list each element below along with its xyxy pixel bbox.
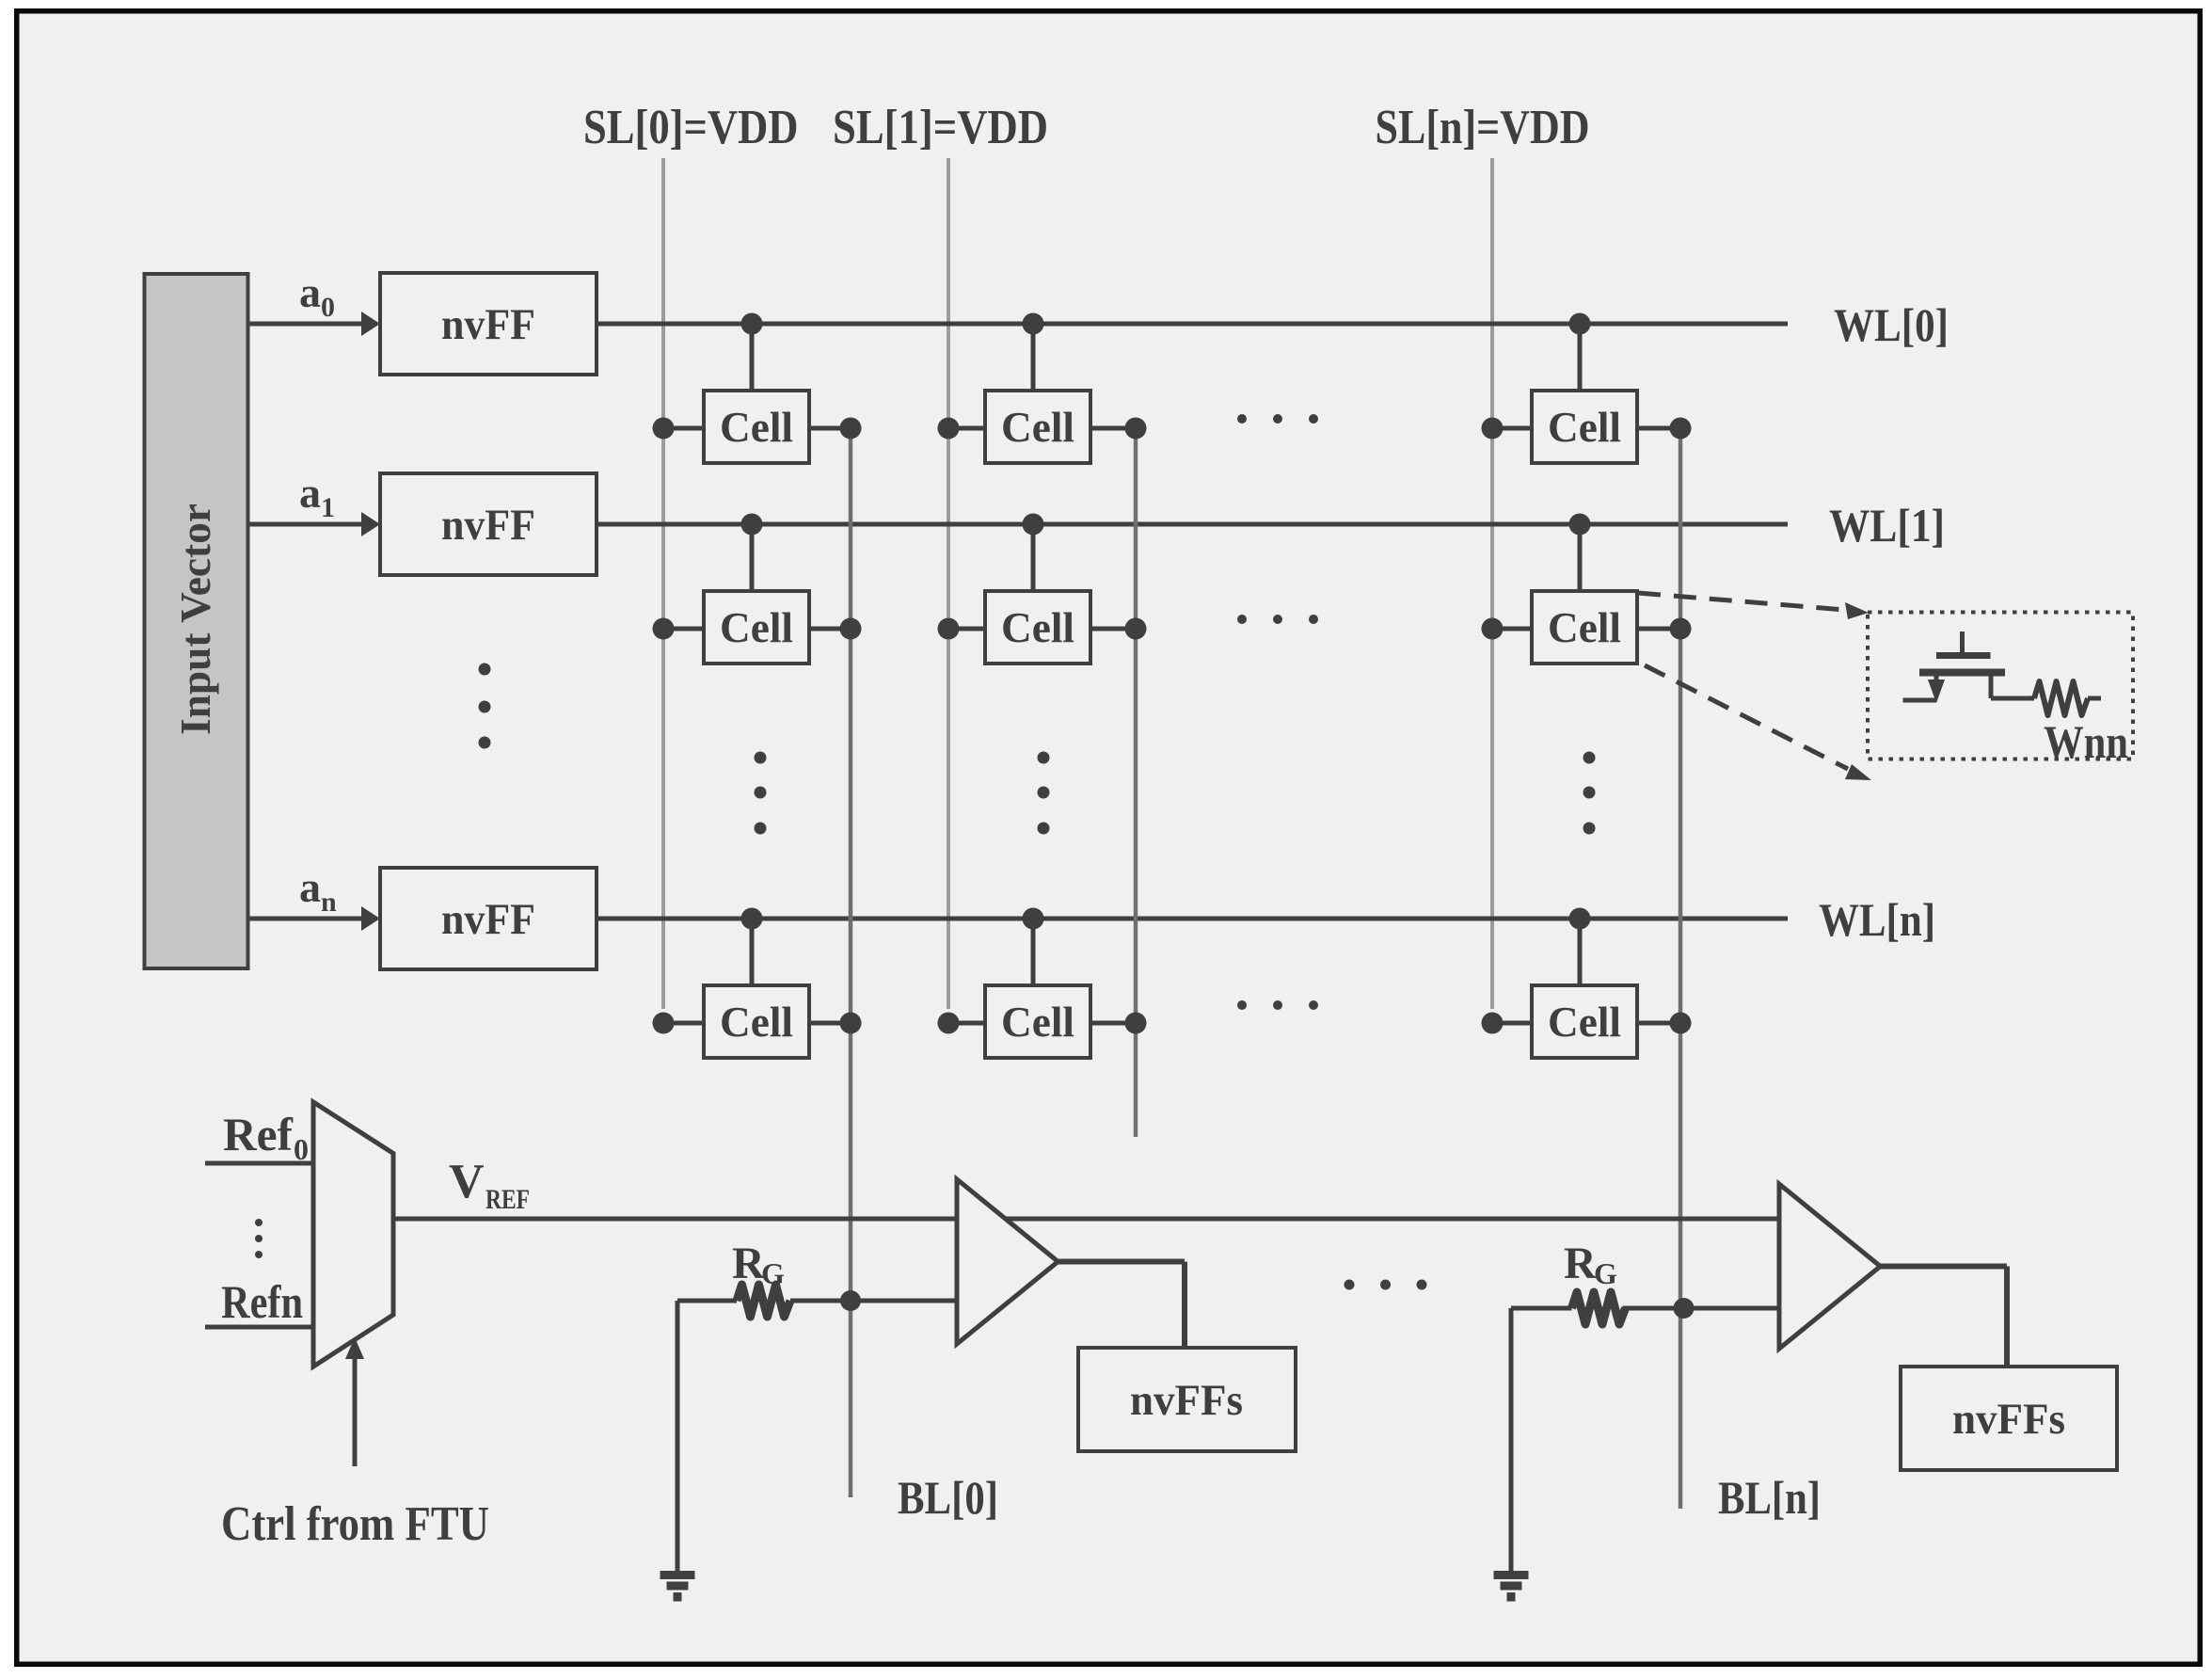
svg-text:Cell: Cell <box>1548 403 1621 451</box>
svg-text:Ctrl from FTU: Ctrl from FTU <box>221 1497 489 1551</box>
svg-text:SL[1]=VDD: SL[1]=VDD <box>833 101 1048 154</box>
svg-text:Cell: Cell <box>1001 603 1074 651</box>
svg-text:SL[0]=VDD: SL[0]=VDD <box>583 101 799 154</box>
svg-text:Cell: Cell <box>1548 998 1621 1046</box>
svg-text:G: G <box>1594 1256 1617 1290</box>
svg-text:BL[0]: BL[0] <box>898 1471 998 1524</box>
svg-text:a: a <box>299 863 321 911</box>
svg-text:0: 0 <box>321 292 335 323</box>
svg-text:nvFF: nvFF <box>441 300 535 349</box>
svg-text:Cell: Cell <box>1001 403 1074 451</box>
svg-text:Cell: Cell <box>1548 603 1621 651</box>
svg-text:nvFFs: nvFFs <box>1952 1395 2065 1444</box>
svg-text:a: a <box>299 268 321 316</box>
svg-text:Cell: Cell <box>720 998 793 1046</box>
svg-text:BL[n]: BL[n] <box>1718 1471 1821 1524</box>
svg-text:WL[n]: WL[n] <box>1819 893 1935 946</box>
svg-text:a: a <box>299 469 321 517</box>
svg-text:Cell: Cell <box>720 603 793 651</box>
svg-text:Ref: Ref <box>223 1108 294 1160</box>
svg-text:nvFF: nvFF <box>441 501 535 550</box>
svg-text:WL[1]: WL[1] <box>1829 499 1945 552</box>
svg-text:1: 1 <box>321 492 335 523</box>
svg-text:SL[n]=VDD: SL[n]=VDD <box>1376 101 1590 154</box>
svg-text:Input Vector: Input Vector <box>171 504 219 735</box>
svg-text:G: G <box>761 1256 785 1290</box>
svg-text:0: 0 <box>294 1132 309 1166</box>
svg-text:nvFFs: nvFFs <box>1130 1376 1243 1425</box>
svg-text:V: V <box>449 1155 485 1208</box>
svg-text:nvFF: nvFF <box>441 895 535 944</box>
svg-text:Cell: Cell <box>720 403 793 451</box>
svg-text:REF: REF <box>485 1184 530 1215</box>
svg-text:Cell: Cell <box>1001 998 1074 1046</box>
svg-text:n: n <box>321 887 337 918</box>
svg-text:WL[0]: WL[0] <box>1834 298 1949 351</box>
svg-text:Refn: Refn <box>221 1275 303 1328</box>
svg-text:Wnn: Wnn <box>2044 715 2128 768</box>
svg-text:R: R <box>1564 1239 1598 1288</box>
